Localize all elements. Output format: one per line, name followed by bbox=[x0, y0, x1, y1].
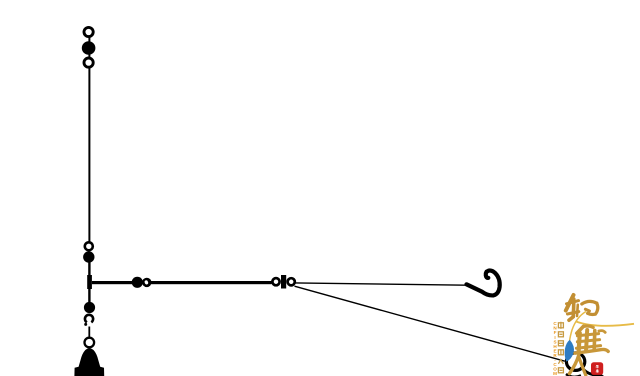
wire bead to swivel bbox=[88, 257, 90, 276]
svg-text:M: M bbox=[553, 371, 557, 376]
char 钓 right part bbox=[582, 301, 598, 314]
char 鱼 bbox=[575, 326, 608, 353]
bead (top) bbox=[82, 41, 96, 55]
bead below swivel bbox=[84, 302, 95, 313]
sinker eye ring bbox=[85, 338, 95, 348]
lower hook eye ring bbox=[566, 353, 584, 371]
float stop ring (second) bbox=[84, 58, 93, 67]
long snell line (lower) bbox=[295, 286, 565, 361]
swivel ring left bbox=[272, 278, 279, 285]
watermark group bbox=[553, 295, 634, 376]
swivel ring right bbox=[288, 278, 295, 285]
char 人 bbox=[569, 355, 585, 375]
hook U1 bbox=[467, 271, 500, 296]
vertical text CNFISHER.COM bbox=[553, 321, 557, 376]
bead on arm (filled) bbox=[132, 277, 143, 288]
bead on arm (ring) bbox=[142, 278, 151, 287]
char 钓 left radical bbox=[566, 295, 579, 320]
horizontal arm line bbox=[92, 281, 272, 284]
bead above swivel bbox=[83, 251, 94, 262]
blue lure bbox=[565, 340, 574, 362]
float stop ring (top) bbox=[84, 27, 93, 36]
lower hook point (cut by edge) bbox=[566, 374, 581, 376]
sinker body bbox=[74, 348, 104, 376]
vertical text 中国钓鱼人网 (glyph blobs) bbox=[558, 322, 563, 373]
snell line to hook bbox=[295, 283, 467, 285]
swivel body bbox=[87, 275, 92, 289]
wire swivel to bead bbox=[88, 289, 90, 303]
gold drop line to lure bbox=[570, 312, 586, 341]
snap ring (open at bottom) bbox=[85, 315, 93, 323]
red seal bbox=[591, 362, 603, 375]
lower hook bend tail bbox=[584, 370, 604, 376]
snap wire tip bbox=[84, 323, 87, 326]
wire snap to sinker ring bbox=[88, 327, 90, 339]
main vertical line bbox=[88, 32, 90, 243]
swivel body (arm) bbox=[281, 275, 286, 289]
stop ring above swivel bbox=[85, 242, 93, 250]
gold sweep line bbox=[576, 322, 634, 326]
